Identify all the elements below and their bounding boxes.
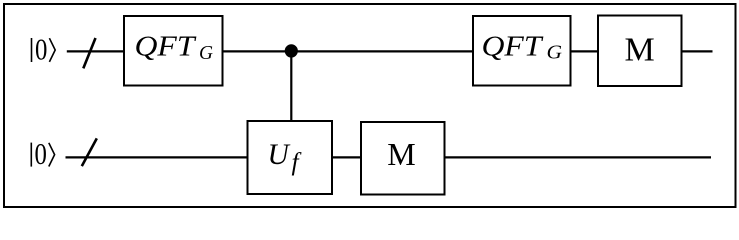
svg-text:G: G xyxy=(199,42,214,64)
svg-text:0: 0 xyxy=(35,33,47,67)
svg-text:G: G xyxy=(547,42,563,64)
gate box M top (measurement) xyxy=(598,16,682,87)
wire q1 (bottom qubit line) xyxy=(66,156,712,158)
gate box M bottom (measurement) xyxy=(361,122,445,195)
gate box U_f xyxy=(248,121,333,194)
gate box QFT_G second xyxy=(473,16,571,86)
node ket |0> top xyxy=(32,33,56,67)
node ket |0> bottom xyxy=(31,137,54,171)
svg-text:M: M xyxy=(387,136,415,172)
bus slash bottom wire xyxy=(82,138,97,166)
wire control vertical (dot to Uf) xyxy=(290,51,292,124)
control dot on q0 xyxy=(285,44,298,57)
svg-text:0: 0 xyxy=(35,137,47,171)
svg-text:QFT: QFT xyxy=(482,31,545,62)
wire q0 (top qubit line) xyxy=(67,50,713,52)
svg-text:M: M xyxy=(624,31,654,68)
bus slash top wire xyxy=(83,38,95,68)
svg-text:U: U xyxy=(268,139,291,171)
svg-text:QFT: QFT xyxy=(135,32,198,63)
gate box QFT_G first xyxy=(124,16,223,86)
